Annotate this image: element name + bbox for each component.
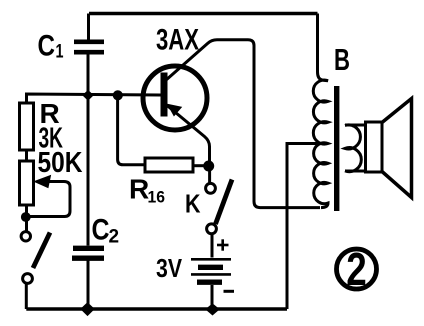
- node junction emitter/R16: [204, 161, 214, 171]
- wire secondary top lead: [345, 124, 366, 127]
- transistor Q1 base bar: [161, 73, 168, 117]
- node junction base/C1: [83, 91, 93, 101]
- transformer B secondary winding: [345, 125, 361, 172]
- node junction C2 bottom: [81, 303, 94, 316]
- wire bottom rail: [26, 307, 287, 310]
- wire R16 left lead: [118, 95, 145, 165]
- transistor Q1 emitter arrow: [168, 104, 182, 115]
- svg-text:50K: 50K: [38, 147, 83, 179]
- label C2: [92, 214, 120, 248]
- wire left vertical (C1 to C2): [87, 51, 90, 245]
- resistor R16: [145, 158, 193, 172]
- svg-text:C: C: [92, 214, 110, 247]
- switch K lever: [216, 180, 233, 225]
- wire R to potentiometer: [25, 150, 28, 161]
- node junction battery bottom: [206, 304, 219, 315]
- svg-text:R: R: [129, 174, 149, 205]
- wire R16 right lead: [193, 164, 206, 167]
- figure number circle 2: [337, 249, 377, 289]
- transistor Q1 collector wire to transformer: [166, 40, 321, 208]
- svg-text:K: K: [185, 189, 201, 219]
- potentiometer wiper arrow: [30, 182, 70, 217]
- wire emitter to switch K: [208, 166, 211, 183]
- capacitor C1: [74, 42, 104, 52]
- switch K top contact: [206, 183, 216, 193]
- label R16: [129, 174, 165, 207]
- potentiometer 50K: [20, 161, 34, 205]
- switch S1 lever: [33, 233, 50, 269]
- svg-text:2: 2: [346, 243, 367, 295]
- wire pot bottom: [25, 205, 28, 232]
- svg-text:3V: 3V: [156, 253, 183, 283]
- svg-text:B: B: [334, 42, 350, 77]
- wire top rail: [89, 12, 318, 16]
- switch K bottom contact: [207, 224, 217, 234]
- svg-text:16: 16: [148, 188, 166, 207]
- node junction R16 top: [113, 91, 122, 100]
- svg-text:C: C: [38, 30, 56, 63]
- transformer B core: [334, 86, 339, 211]
- svg-text:2: 2: [109, 227, 120, 248]
- svg-text:1: 1: [56, 42, 64, 63]
- wire battery to bottom rail: [211, 285, 214, 309]
- speaker horn: [382, 99, 412, 198]
- label battery minus: [224, 290, 235, 293]
- switch S1 bottom contact: [23, 274, 33, 284]
- wire C1 top lead: [87, 14, 90, 41]
- label battery plus: [217, 239, 229, 250]
- wire transformer tap: [287, 144, 328, 310]
- transistor Q1 emitter wire: [167, 105, 210, 162]
- battery 3V plates: [191, 258, 231, 261]
- speaker body: [366, 122, 383, 172]
- transformer B primary winding: [313, 14, 328, 208]
- switch S1 top contact: [21, 232, 30, 241]
- resistor R: [20, 103, 34, 150]
- capacitor C2: [72, 248, 104, 258]
- wire base rail: [27, 94, 161, 103]
- wire K to battery: [211, 235, 214, 258]
- svg-text:3AX: 3AX: [156, 24, 199, 57]
- wire S1 to bottom rail: [25, 284, 28, 309]
- transistor Q1 circle: [143, 66, 207, 130]
- wire secondary bottom lead: [345, 170, 366, 173]
- node junction pot bottom: [21, 213, 30, 222]
- wire C2 to bottom rail: [87, 258, 90, 309]
- label C1: [38, 30, 64, 63]
